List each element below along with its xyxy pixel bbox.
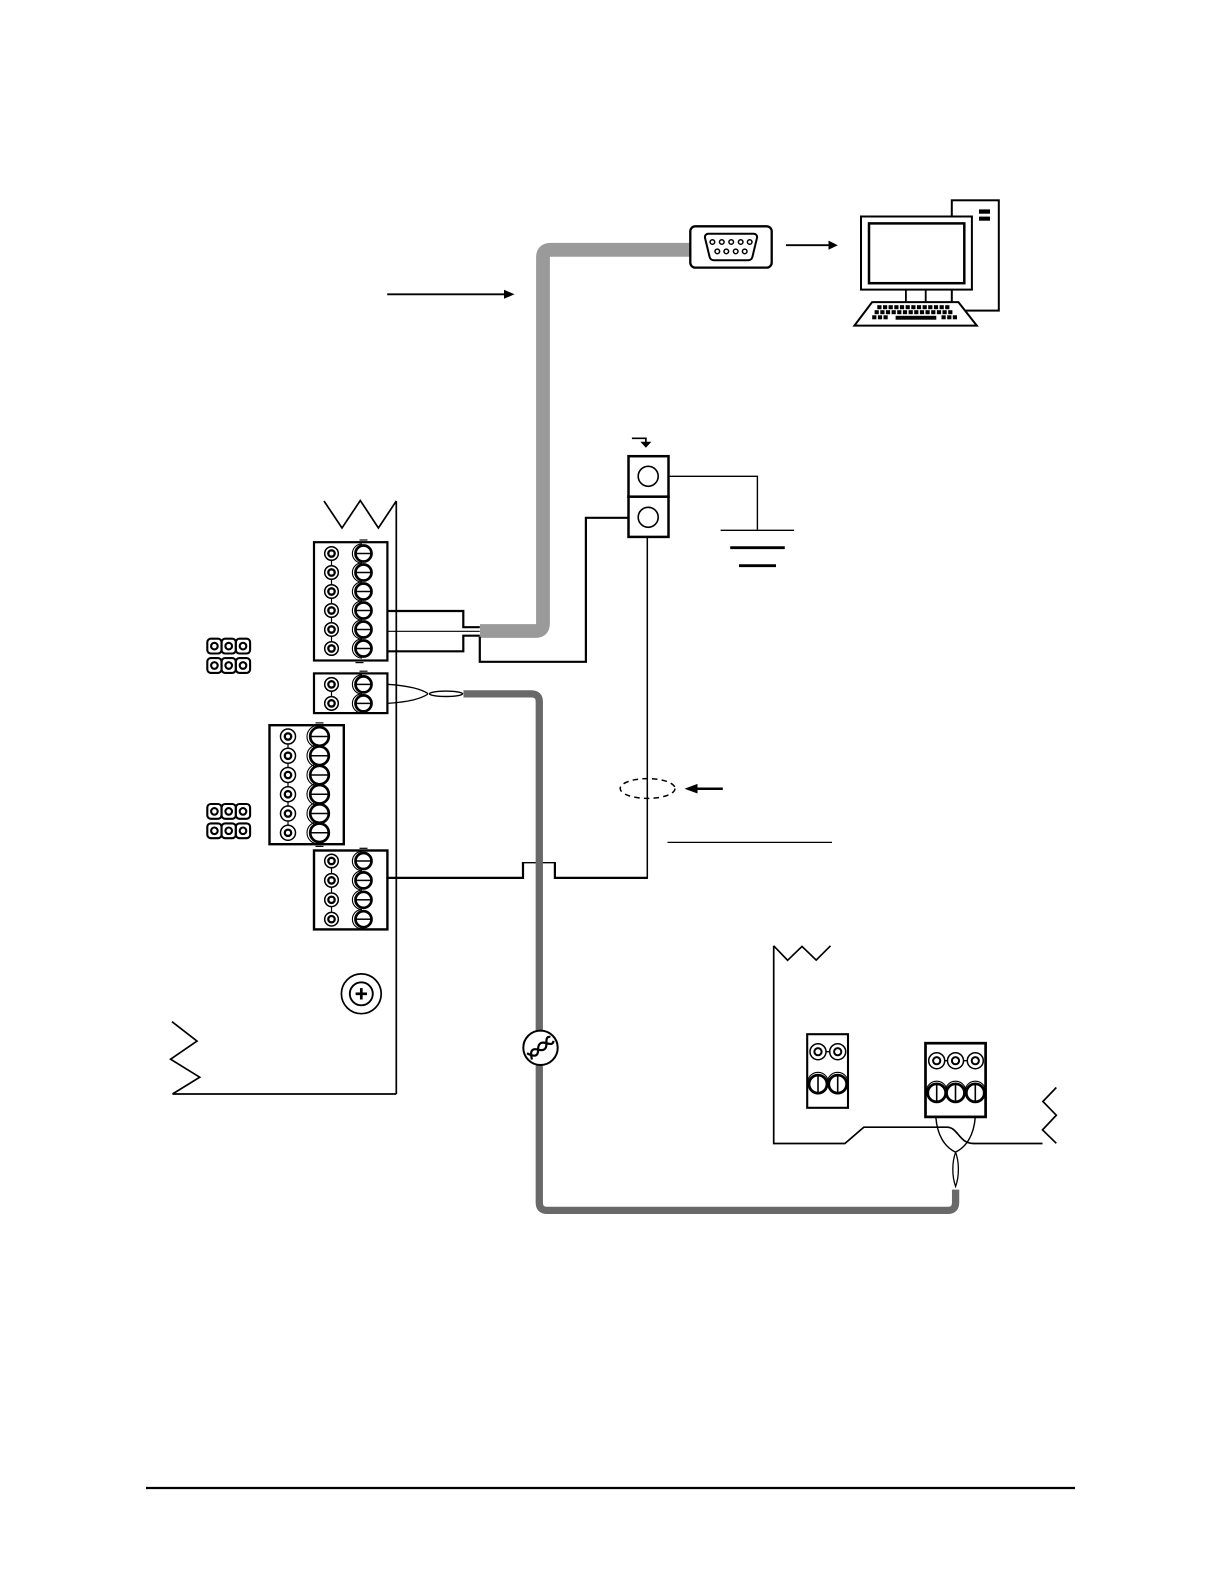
terminal block TB5 (2-position) xyxy=(807,1034,848,1108)
wire TB1 pin4 to cable xyxy=(388,611,480,627)
computer (keyboard) xyxy=(854,302,976,326)
chassis ground screw xyxy=(341,974,381,1014)
twisted pair lens below TB6 xyxy=(953,1152,959,1186)
twisted-pair cable (dark gray) xyxy=(464,694,956,1211)
terminal block TB1 (6-position) xyxy=(314,540,387,663)
sensor enclosure wall (left + bottom) xyxy=(774,946,1043,1144)
elbow arrow into shield terminal xyxy=(632,438,652,447)
wire bundle into TB6 (vesica) xyxy=(936,1117,976,1152)
twisted pair wires from TB2 xyxy=(388,684,463,703)
twisted-pair symbol on cable xyxy=(523,1031,557,1065)
arrow pointing to dashed ellipse xyxy=(685,784,723,794)
controller enclosure wall (right edge) xyxy=(395,501,397,1094)
arrow DB9 to computer xyxy=(786,241,838,250)
jumper header J2 (2x3) xyxy=(207,804,250,838)
serial interface cable (light gray) xyxy=(480,250,691,631)
wire TB1 pin5 to cable xyxy=(388,630,480,632)
terminal block TB2 (2-position) xyxy=(314,671,387,713)
DB9 serial connector xyxy=(690,226,771,267)
sensor enclosure break (right zigzag) xyxy=(1043,1088,1057,1144)
computer (monitor) xyxy=(861,217,972,303)
label leader line xyxy=(668,841,833,843)
earth ground symbol xyxy=(721,530,795,565)
shield wire riser to shield terminal xyxy=(646,537,648,878)
terminal block TB4 (4-position) xyxy=(314,848,387,929)
wire shield terminal to earth ground xyxy=(669,476,758,529)
page footer rule xyxy=(146,1487,1075,1489)
computer (tower) xyxy=(952,200,999,310)
jumper header J1 (2x3) xyxy=(207,639,250,673)
controller enclosure wall (bottom edge) xyxy=(173,1093,397,1095)
terminal block TB6 (3-position) xyxy=(926,1043,986,1117)
sensor enclosure break (top zigzag) xyxy=(774,946,831,961)
wire TB1 pin6 to cable xyxy=(388,636,480,652)
shield wire bridge top (under cable) xyxy=(522,862,556,864)
drain wire from cable to shield terminal xyxy=(480,518,629,662)
shield terminal connector (2 holes) xyxy=(629,456,669,537)
arrow pointing to serial cable xyxy=(387,290,514,299)
shield wire from TB4 to shield terminal xyxy=(388,862,648,878)
controller enclosure break (left zigzag) xyxy=(171,1022,200,1094)
terminal block TB3 (6-position) xyxy=(270,723,344,847)
controller enclosure break (top zigzag) xyxy=(324,501,396,529)
dashed ellipse callout (ferrite/loop) xyxy=(620,779,675,799)
